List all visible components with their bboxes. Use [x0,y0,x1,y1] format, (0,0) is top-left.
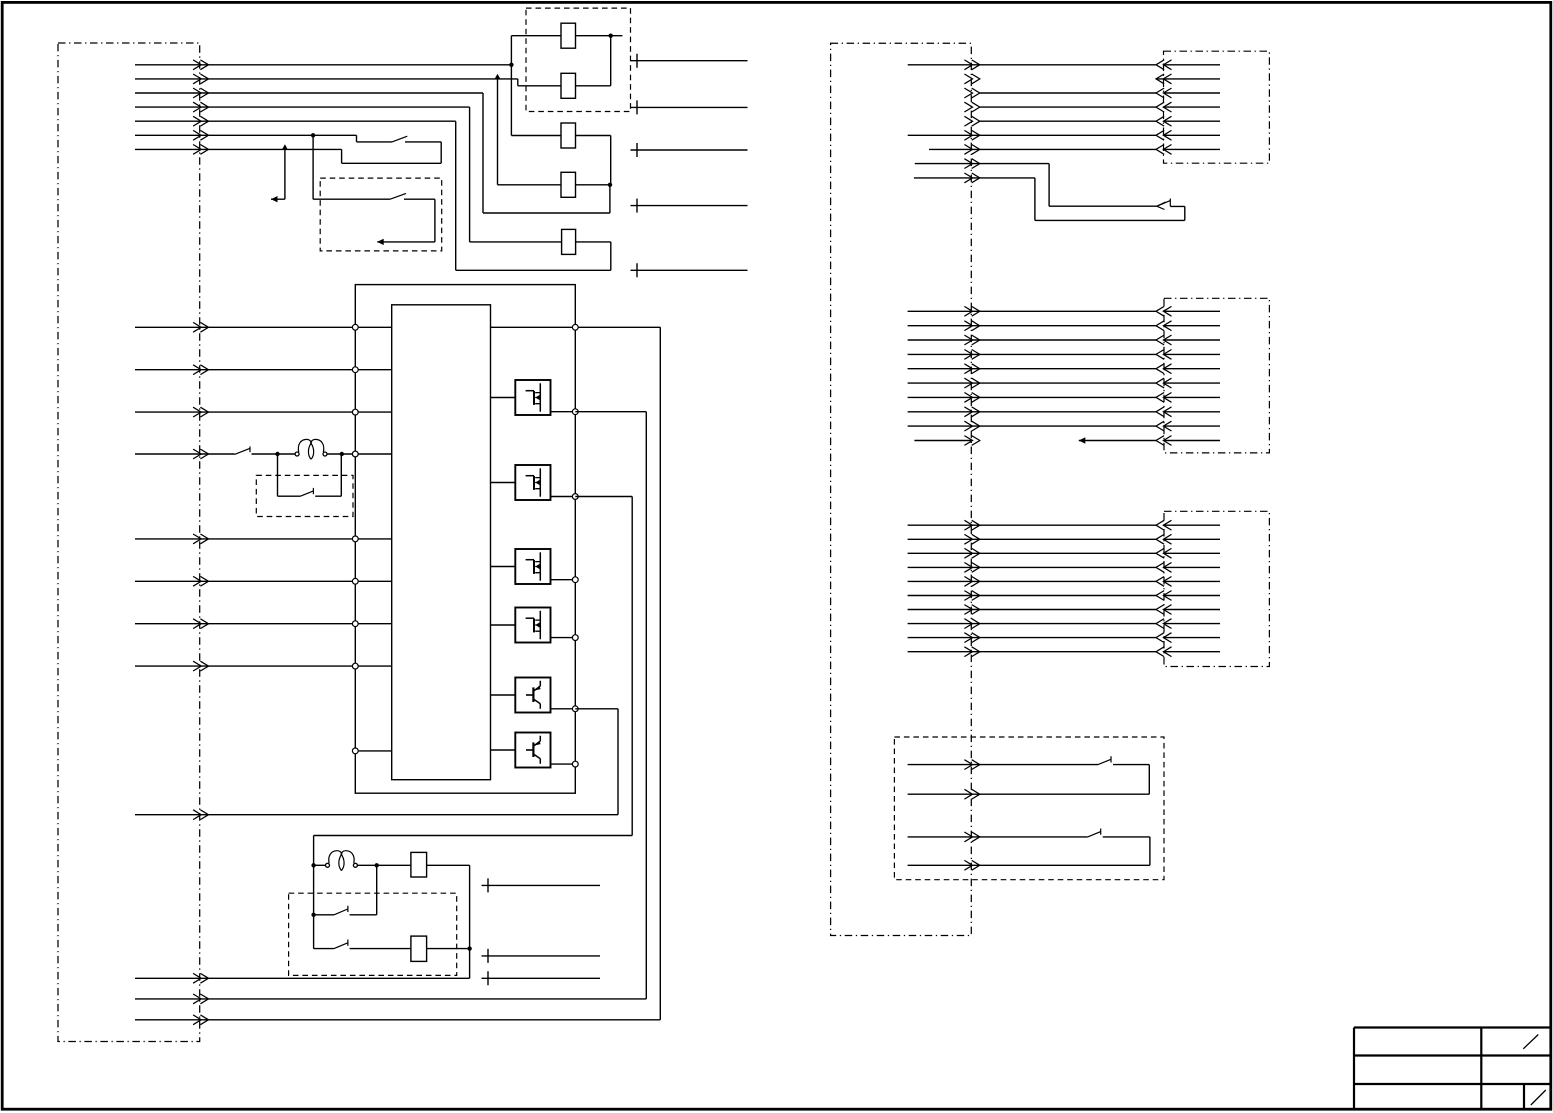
wire [908,382,1156,384]
harness arrow [193,88,208,98]
wire [908,609,1156,611]
transistor Q4 [515,608,550,643]
connector box X1 (left harness, dash-dot) [58,43,200,1042]
terminal [482,971,601,985]
pin circle [572,761,578,767]
wire into X5 [1164,552,1220,554]
harness arrow [964,789,979,799]
pin stub [355,623,391,625]
contact S7 tick+drop [1169,199,1171,207]
wire U1 to Q4 [491,624,516,626]
wire [908,339,1156,341]
wire into X4 [1164,353,1220,355]
harness arrow [964,173,979,183]
terminal [482,878,601,892]
wire into X3 [1164,120,1220,122]
relay block left rail [313,836,315,949]
contact S4 tick [312,488,314,494]
wire [980,92,1156,94]
title block [1354,1028,1551,1110]
wire into X3 [1164,134,1220,136]
connector arrow [1156,364,1172,374]
wire into X4 [1164,325,1220,327]
contact box (dashed) [289,893,457,975]
harness arrow [964,321,979,331]
wire [908,310,1156,312]
harness arrow [193,116,208,126]
wire L3 loop [135,93,610,213]
connector arrow [1156,350,1172,360]
wire L7 [135,149,441,163]
wire S2 return [377,199,435,242]
connector arrow [1156,534,1172,544]
harness arrow [964,335,979,345]
pin circle [572,324,578,330]
wire [980,120,1156,122]
wire S5 out [350,914,377,916]
wire K2 out [576,85,611,87]
harness arrow [964,350,979,360]
wire r9 [914,177,1035,179]
connector box X6 (dashed) [894,737,1164,880]
node J5 [275,452,279,456]
wire Q2 to relay block [575,497,632,836]
connector arrow [1156,335,1172,345]
module A1 outer box [355,285,575,794]
transformer T2 [326,851,358,871]
wire into X5 [1164,595,1220,597]
wire into X5 [1164,609,1220,611]
wire [908,368,1156,370]
connector arrow [1156,130,1172,140]
harness arrow [193,810,208,820]
connector arrow [1156,378,1172,388]
wire into X5 [1164,524,1220,526]
harness arrow [193,1015,208,1025]
contact S5 tick [347,906,349,912]
wire S3-T1 [252,453,296,455]
title block slash (sheet cell) [1523,1035,1538,1049]
contact S2 blade [390,193,406,199]
pin stub [355,453,391,455]
wire [908,651,1156,653]
node J1 [509,63,513,67]
transistor Q3 [515,549,550,584]
wire r8 return [1035,178,1185,221]
connector arrow [1156,591,1172,601]
pin stub [355,580,391,582]
wire [908,396,1156,398]
wire Q5 return loop [135,709,618,815]
relay coil K2 [561,73,576,98]
relay coil K3 [561,123,576,148]
contact S8 tick [1110,756,1112,762]
contact S7 blade [1157,201,1171,207]
wire into X3 [1164,148,1220,150]
wire to S6 [314,948,334,950]
harness arrow [964,760,979,770]
wire [908,595,1156,597]
pin stub [355,411,391,413]
wire U1 to Q6 [491,749,516,751]
harness arrow [964,74,979,84]
wire into X5 [1164,566,1220,568]
wire U1 to Q5 [491,694,516,696]
pin circle [572,706,578,712]
pin circle [352,578,358,584]
relay coil K7 [411,936,427,961]
wire K3 out [576,136,611,185]
connector arrow [1156,407,1172,417]
wire to module [135,411,355,413]
arrow on S2 return [377,239,384,245]
wire Q5 out [551,708,576,710]
wire [908,538,1156,540]
harness arrow [964,563,979,573]
wire pair1 feed [908,764,1098,766]
connector arrow [1156,548,1172,558]
arrow on L7 drop [271,196,278,202]
pin circle [352,409,358,415]
wire T2-K6 [357,864,411,866]
wire L6 [135,135,392,142]
wire (stub) [1156,78,1220,80]
wire L5 [135,120,456,122]
harness arrow [964,306,979,316]
harness arrow [964,605,979,615]
node J7 [311,863,315,867]
transistor Q5 [515,678,550,713]
node J9 [311,913,315,917]
harness arrow [964,534,979,544]
wire into X4 [1164,368,1220,370]
harness arrow [964,159,979,169]
controller U1 [392,305,491,780]
wire Q3 out [551,579,576,581]
title block slash (rev cell) [1531,1090,1546,1105]
connector arrow [1156,116,1172,126]
wire to module [135,623,355,625]
pin circle [352,367,358,373]
wire [929,148,1156,150]
contact S6 blade [334,943,348,949]
harness arrow [964,647,979,657]
pin stub [355,538,391,540]
wire L2 drop [498,79,562,185]
wire into X5 [1164,623,1220,625]
harness arrow [193,619,208,629]
pin circle [352,621,358,627]
connector arrow [1156,563,1172,573]
transformer T1 [295,439,327,459]
wire to module [135,538,355,540]
contact S9 tick [1100,829,1102,835]
transistor Q2 [515,465,550,500]
harness arrow [193,145,208,155]
wire into X4 [1164,440,1220,442]
contact S8 blade [1098,759,1111,764]
harness arrow [193,365,208,375]
harness arrow [964,860,979,870]
wire [908,566,1156,568]
wire into X4 [1164,425,1220,427]
wire [908,134,1156,136]
node J2 [609,34,613,38]
harness arrow [193,534,208,544]
pin circle [572,494,578,500]
wire pair1 return [908,765,1150,795]
relay coil K6 [411,852,427,877]
wire to T2 [314,864,326,866]
wire into X4 [1164,411,1220,413]
wire Q1 out [551,411,576,413]
pin stub [355,326,391,328]
connector arrow [1156,577,1172,587]
connector arrow [1156,633,1172,643]
arrow head [1079,437,1086,443]
wire [908,425,1156,427]
wire S4 return [315,454,341,496]
wire [908,580,1156,582]
relay coil K5 [562,229,576,254]
harness arrow [964,619,979,629]
connector arrow [1156,520,1172,530]
wire [908,353,1156,355]
node J4 [311,133,315,137]
harness arrow [964,145,979,155]
wire U1 to Q1 [491,397,516,399]
wire [908,637,1156,639]
arrow on r8 [1157,202,1166,210]
harness arrow [964,548,979,558]
wire K5 out loop [456,121,611,270]
connector arrow [1156,393,1172,403]
wire K4 out [576,184,611,186]
node J10 [467,946,471,950]
wire to module [135,580,355,582]
wire top pin return loop [135,327,660,1020]
wire J8 drop [376,865,378,915]
wire into X5 [1164,580,1220,582]
connector arrow [1156,306,1172,316]
wire L1 riser [510,36,512,136]
connector box X4 (dash-dot) [1164,298,1269,453]
harness arrow [964,591,979,601]
harness arrow [964,130,979,140]
harness arrow [193,407,208,417]
relay block top rail [314,835,633,837]
coil group box (dashed) [526,8,631,111]
wire into X3 [1164,92,1220,94]
wire into X5 [1164,637,1220,639]
terminal [482,949,601,963]
transistor Q6 [515,733,550,768]
wire K1 feed [511,35,561,37]
harness arrow [193,973,208,983]
harness arrow [964,436,979,446]
terminal [631,54,748,68]
relay coil K1 [561,23,576,48]
wire into X4 [1164,310,1220,312]
pin circle [352,324,358,330]
node J3 [608,183,612,187]
aux contact S4 box (dashed) [256,475,353,516]
wire into X4 [1164,339,1220,341]
wire to module [135,369,355,371]
harness arrow [964,421,979,431]
contact S4 blade [300,491,313,496]
connector arrow [1156,102,1172,112]
wire U1 to Q3 [491,566,516,568]
connector arrow [1156,605,1172,615]
harness arrow [193,74,208,84]
wire L1 [135,64,511,66]
pin circle [352,663,358,669]
contact S3 blade [235,448,250,454]
wire [908,552,1156,554]
harness arrow [193,102,208,112]
pin circle [352,536,358,542]
contact S3 tick [249,446,251,452]
wire [908,325,1156,327]
connector arrow [1156,88,1172,98]
harness arrow [964,577,979,587]
wire to module [135,326,355,328]
connector arrow [1156,619,1172,629]
node J8 [375,863,379,867]
wire K3 feed [511,135,561,137]
harness arrow [964,116,979,126]
wire K6 out [427,864,470,866]
relay coil K4 [561,172,576,197]
wire Q1 return loop [135,412,646,999]
harness arrow [964,407,979,417]
wire [980,106,1156,108]
wire [908,524,1156,526]
connector box X2 (right harness, dash-dot) [831,43,972,935]
wire to module (sensed) [135,453,235,455]
harness arrow [193,322,208,332]
wire Q6 out [551,763,576,765]
wire into X4 [1164,382,1220,384]
wire into X3 [1164,106,1220,108]
harness arrow [193,994,208,1004]
harness arrow [193,576,208,586]
contact S6 tick [347,940,349,946]
wire S6-K7 [350,948,411,950]
pin stub [355,750,391,752]
harness arrow [964,378,979,388]
pin circle [352,748,358,754]
flow arrow on L7 branch [282,144,288,150]
wire Q2 out [551,496,576,498]
wire into X3 [1164,64,1220,66]
connector arrow [1156,647,1172,657]
harness arrow [964,832,979,842]
wire S1 out [405,142,441,163]
harness arrow [193,449,208,459]
harness arrow [964,633,979,643]
terminal [631,263,748,277]
wire pair2 return [908,837,1150,865]
connector arrow [1156,74,1172,84]
node J6 [340,452,344,456]
pin stub [355,369,391,371]
pin circle [572,635,578,641]
wire Q4 out [551,637,576,639]
wire L6 drop to S2 [313,135,390,199]
harness arrow [193,60,208,70]
terminal [631,143,748,157]
wire r8 [915,164,1157,207]
wire into X5 [1164,651,1220,653]
wire to S5 [314,914,334,916]
wire top pin out [491,326,661,328]
pin circle [352,451,358,457]
connector arrow [1156,145,1172,155]
wire K7 out [427,948,470,950]
pin circle [572,409,578,415]
connector box X3 (dash-dot) [1164,51,1270,163]
wire [908,411,1156,413]
wire into X4 [1164,396,1220,398]
harness arrow [193,130,208,140]
harness arrow [964,364,979,374]
wire to module [135,665,355,667]
wire [908,64,1156,66]
harness arrow [964,88,979,98]
harness arrow [964,60,979,70]
connector box X5 (dash-dot) [1164,511,1269,666]
wire L7 drop [271,149,285,199]
wire L4 [135,107,562,242]
transistor Q1 [515,380,550,415]
wire [908,623,1156,625]
wire pair2 feed [908,836,1088,838]
connector arrow [1156,60,1172,70]
harness arrow [964,520,979,530]
harness arrow [964,393,979,403]
contact S5 blade [334,909,348,915]
wire L2 [135,79,561,86]
connector arrow [1156,321,1172,331]
wire T1-module [327,453,355,455]
connector arrow [1156,421,1172,431]
contact S1 blade [392,136,407,142]
wire supply [135,977,470,979]
contact S9 blade [1088,832,1101,837]
pin circle [572,577,578,583]
terminal [631,100,748,114]
harness arrow [193,661,208,671]
wire (left stub) [914,440,971,442]
harness arrow [964,102,979,112]
contact S2 box (dashed) [320,178,442,251]
flow arrow on L2 branch [494,74,500,80]
terminal [631,199,748,213]
wire right rail [469,865,471,978]
wire K1 out [576,36,623,86]
wire J5 drop [278,454,301,496]
wire into X5 [1164,538,1220,540]
connector arrow [1156,436,1172,446]
wire [1079,440,1156,442]
pin stub [355,665,391,667]
wire U1 to Q2 [491,482,516,484]
